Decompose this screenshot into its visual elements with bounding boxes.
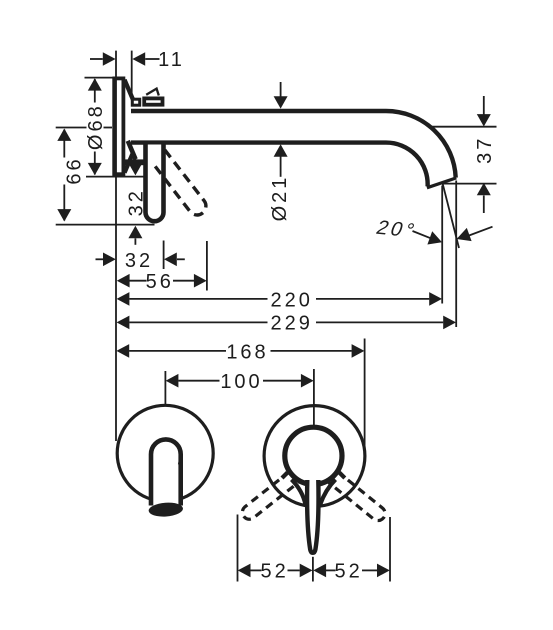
svg-text:168: 168 <box>226 341 268 363</box>
svg-text:Ø68: Ø68 <box>85 103 107 150</box>
svg-text:56: 56 <box>146 271 174 293</box>
svg-text:66: 66 <box>64 156 86 184</box>
svg-text:32: 32 <box>125 250 153 272</box>
svg-text:11: 11 <box>158 49 185 71</box>
svg-text:229: 229 <box>271 313 313 335</box>
svg-text:220: 220 <box>271 289 313 311</box>
svg-text:32: 32 <box>126 188 148 216</box>
svg-text:Ø21: Ø21 <box>269 175 291 222</box>
svg-text:100: 100 <box>220 371 262 393</box>
svg-text:52: 52 <box>334 561 362 583</box>
svg-text:20°: 20° <box>373 217 420 242</box>
svg-text:52: 52 <box>260 561 288 583</box>
svg-text:37: 37 <box>474 136 496 164</box>
